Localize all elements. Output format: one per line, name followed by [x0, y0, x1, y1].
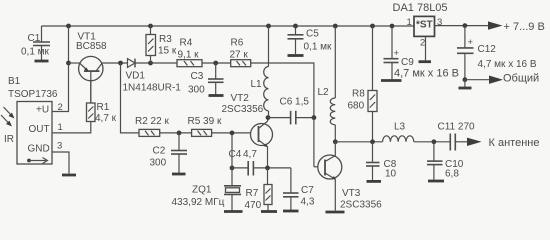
resistor R1 [52, 81, 117, 133]
svg-text:К антенне: К антенне [489, 137, 540, 149]
wire VT1 emitter lead [69, 62, 80, 64]
svg-text:300: 300 [188, 85, 205, 96]
svg-text:VT2: VT2 [231, 93, 250, 104]
node VT2 collector / L1 / C6 [266, 115, 271, 120]
svg-text:R8: R8 [352, 89, 365, 100]
svg-text:3: 3 [437, 17, 442, 28]
svg-text:C4: C4 [229, 149, 242, 160]
node VD1 anode / R2 [118, 61, 123, 66]
svg-text:C9: C9 [401, 57, 414, 68]
wire VT3 base [314, 166, 318, 168]
capacitor C9 [384, 26, 459, 80]
resistor R7 [245, 168, 273, 211]
wire C12 to ground [464, 80, 466, 87]
capacitor C8 [366, 142, 397, 180]
wire VT3 emitter to ground [334, 179, 336, 211]
transistor VT1 BC858 [76, 32, 107, 104]
transistor VT3 2SC3356 [318, 155, 382, 211]
svg-text:VD1: VD1 [126, 71, 146, 82]
svg-text:C2: C2 [153, 146, 166, 157]
svg-text:+U: +U [36, 105, 49, 116]
wire R2 drop [121, 63, 140, 133]
svg-text:C6 1,5: C6 1,5 [280, 97, 310, 108]
capacitor C6 [268, 97, 314, 125]
capacitor C2 [150, 133, 188, 173]
ground C1 [35, 60, 49, 63]
svg-text:R3: R3 [159, 34, 172, 45]
antenna output arrow [467, 137, 539, 149]
resistor R6 [230, 38, 251, 67]
node rail-VT1 [66, 24, 71, 29]
svg-text:R7: R7 [246, 188, 259, 199]
svg-text:4,7: 4,7 [243, 149, 257, 160]
node VT2 base [230, 131, 235, 136]
transistor VT2 2SC3356 [222, 93, 273, 147]
capacitor C1 [21, 26, 50, 60]
common output arrow [489, 73, 539, 85]
node C3 [213, 61, 218, 66]
ground C3 [209, 94, 224, 97]
wire R2 to R5 [160, 132, 192, 134]
node rail-C9 [390, 24, 395, 29]
node ZQ1 / C4 junction [230, 166, 235, 171]
svg-text:IR: IR [4, 134, 14, 145]
wire VD1 cathode to node [135, 62, 177, 64]
svg-text:*ST: *ST [416, 20, 433, 31]
IC DA1 78L05 [393, 2, 448, 49]
wire VT3 collector [334, 142, 336, 156]
ground common [459, 87, 472, 90]
resistor R8 [348, 26, 378, 142]
diode VD1 1N4148UR-1 [123, 59, 182, 94]
wire B1 GND to ground [52, 152, 69, 174]
wire common [465, 79, 490, 81]
ground R7 [261, 210, 277, 213]
svg-text:27 к: 27 к [230, 50, 249, 61]
wire L3 to C11 [414, 141, 451, 143]
svg-text:R1: R1 [97, 102, 110, 113]
svg-text:300: 300 [150, 158, 167, 169]
svg-text:433,92 МГц: 433,92 МГц [172, 197, 225, 208]
node VT3 collector / L2 [333, 139, 338, 144]
svg-text:2SC3356: 2SC3356 [222, 104, 264, 115]
capacitor C12 [457, 26, 537, 80]
ground B1 [62, 174, 76, 177]
svg-text:R6: R6 [231, 38, 244, 49]
capacitor C3 [188, 63, 224, 96]
svg-text:10: 10 [385, 169, 397, 180]
resistor R2 [135, 116, 169, 136]
pin 1 label [58, 122, 63, 133]
svg-text:R4: R4 [180, 38, 193, 49]
svg-text:2: 2 [58, 102, 63, 113]
wire collector row to L3 [335, 141, 382, 143]
svg-text:ZQ1: ZQ1 [192, 185, 212, 196]
svg-text:9,1 к: 9,1 к [178, 50, 200, 61]
svg-text:1: 1 [58, 122, 63, 133]
ground DA1 [419, 60, 432, 63]
svg-text:+: + [468, 37, 474, 48]
wire +U drop [52, 26, 69, 112]
node rail-R3 [148, 24, 153, 29]
crystal ZQ1 433,92 MHz [172, 133, 242, 211]
node rail-R8 [370, 24, 375, 29]
wire VT2 collector up [267, 118, 269, 121]
wire VT2 emitter down [267, 146, 269, 168]
ground ZQ1 [224, 210, 243, 213]
svg-text:B1: B1 [8, 76, 21, 87]
svg-text:R5 39 к: R5 39 к [188, 116, 222, 127]
supply output arrow [488, 21, 545, 33]
svg-text:15 к: 15 к [158, 46, 177, 57]
svg-text:C11 270: C11 270 [438, 122, 476, 133]
wire DA1 output [435, 25, 490, 27]
svg-text:TSOP1736: TSOP1736 [8, 89, 58, 100]
svg-text:C5: C5 [306, 29, 319, 40]
IR arrows [1, 107, 15, 145]
pin 2 label [58, 102, 63, 113]
svg-text:470: 470 [245, 200, 262, 211]
node common [463, 77, 468, 82]
node C6 right [312, 115, 317, 120]
svg-text:4,7 мк x 16 В: 4,7 мк x 16 В [394, 68, 459, 80]
IC B1 TSOP1736 [8, 76, 58, 164]
inductor L1 [251, 26, 269, 118]
ground C7 [283, 210, 299, 213]
svg-text:OUT: OUT [29, 124, 50, 135]
ground C5 [288, 54, 304, 57]
node C12 top [463, 23, 468, 28]
svg-text:4,3: 4,3 [301, 197, 315, 208]
svg-text:2SC3356: 2SC3356 [340, 200, 382, 211]
node R3/R4 [148, 61, 153, 66]
svg-text:Общий: Общий [503, 73, 539, 85]
svg-text:1N4148UR-1: 1N4148UR-1 [123, 83, 182, 94]
resistor R5 [188, 116, 222, 136]
node rail-C5 [293, 24, 298, 29]
svg-text:680: 680 [348, 101, 365, 112]
svg-text:BC858: BC858 [76, 41, 107, 52]
svg-text:6,8: 6,8 [445, 169, 459, 180]
svg-text:+ 7...9 В: + 7...9 В [504, 21, 545, 33]
svg-text:L1: L1 [251, 79, 263, 90]
svg-text:0,1 мк: 0,1 мк [304, 42, 333, 53]
svg-text:L2: L2 [318, 87, 330, 98]
node C2 [177, 131, 182, 136]
svg-text:R2 22 к: R2 22 к [135, 116, 169, 127]
ground C10 [428, 180, 444, 183]
node rail-L2 [333, 24, 338, 29]
node rail-L1 [266, 24, 271, 29]
node VT1 emitter junction [66, 61, 71, 66]
svg-text:3: 3 [57, 141, 62, 152]
wire R5 to VT2 base [212, 132, 251, 134]
svg-text:C12: C12 [478, 44, 497, 55]
capacitor C4 [229, 149, 291, 176]
svg-text:GND: GND [28, 144, 50, 155]
capacitor C10 [427, 142, 464, 180]
ground VT3 [326, 211, 345, 214]
node C10 / C11 [432, 139, 437, 144]
inductor L3 [383, 122, 414, 142]
wire R6 to VT3 base line [251, 63, 314, 167]
ground C2 [172, 173, 186, 176]
capacitor C5 [288, 26, 333, 54]
svg-text:DA1 78L05: DA1 78L05 [393, 2, 448, 14]
node R8 / C8 / L3 [370, 139, 375, 144]
svg-text:C3: C3 [191, 71, 204, 82]
wire top supply rail [42, 25, 415, 27]
svg-text:C7: C7 [301, 185, 314, 196]
resistor R3 [146, 26, 177, 63]
node VT2 emitter / R7 [265, 166, 270, 171]
svg-text:1: 1 [407, 17, 412, 28]
wire DA1 pin2 to ground [425, 36, 427, 60]
svg-text:2: 2 [420, 38, 425, 49]
wire R4 to R6 [202, 62, 231, 64]
svg-text:4,7 к: 4,7 к [95, 113, 117, 124]
svg-text:C1: C1 [28, 33, 41, 44]
wire VT1 collector [102, 62, 127, 64]
capacitor C7 [283, 168, 315, 210]
resistor R4 [177, 38, 202, 67]
inductor L2 [318, 26, 336, 142]
pin 3 label [57, 141, 62, 152]
svg-text:VT3: VT3 [342, 188, 361, 199]
svg-text:L3: L3 [394, 122, 406, 133]
ground C9 [381, 79, 402, 82]
svg-text:+: + [394, 48, 400, 59]
capacitor C11 [438, 122, 476, 151]
svg-text:0,1 мк: 0,1 мк [21, 47, 50, 58]
ground C8 [367, 180, 382, 183]
svg-text:4,7 мк x 16 В: 4,7 мк x 16 В [478, 59, 537, 70]
